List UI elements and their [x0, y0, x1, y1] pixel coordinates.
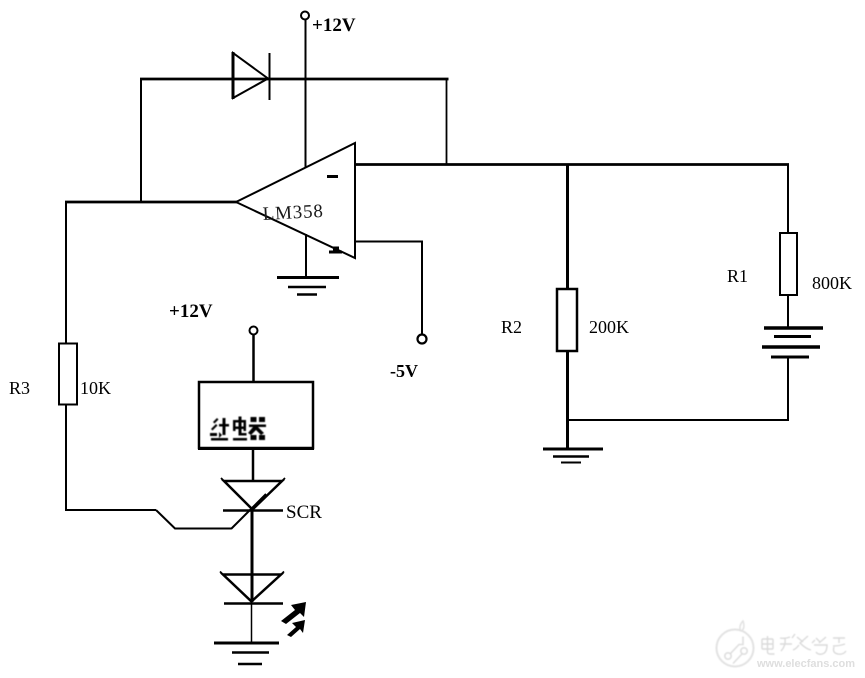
wire R2 branch vertical: [566, 164, 569, 290]
wire op-amp plus input: [355, 242, 422, 335]
svg-text:LM358: LM358: [262, 201, 324, 225]
svg-text:www.elecfans.com: www.elecfans.com: [756, 658, 855, 670]
watermark text 电子发烧友: [762, 634, 846, 654]
svg-text:10K: 10K: [80, 378, 111, 398]
op-amp U1 LM358: [236, 143, 355, 258]
wire op-amp ground pin: [305, 234, 307, 277]
diode D1: [233, 52, 270, 100]
继: [213, 418, 219, 424]
svg-text:200K: 200K: [589, 317, 629, 337]
svg-text:R3: R3: [9, 378, 30, 398]
wire battery to bottom rail: [787, 357, 789, 421]
wire +12V vertical to op-amp top edge: [305, 20, 307, 168]
wire top horizontal feedback: [140, 78, 449, 81]
wire R3 bottom to SCR gate: [66, 404, 156, 510]
wire bottom rail: [567, 419, 789, 421]
terminal +12V top: [301, 12, 309, 20]
watermark logo elecfans: [717, 621, 754, 667]
svg-text:+12V: +12V: [312, 15, 356, 36]
ground R2: [543, 449, 603, 463]
ground LED: [214, 643, 279, 664]
resistor R3: [59, 344, 77, 405]
LED D2: [220, 572, 284, 604]
wire terminal to relay: [252, 335, 255, 384]
wire R1 to battery: [787, 295, 789, 328]
battery B1: [762, 328, 823, 357]
label relay 继电器 (hand drawn): [210, 417, 266, 441]
wire right rail down to R1: [787, 164, 789, 235]
relay box: [198, 382, 314, 449]
svg-text:800K: 800K: [812, 273, 852, 293]
器: [251, 417, 257, 422]
LED arrows: [281, 602, 306, 637]
resistor R2: [557, 289, 577, 351]
电: [233, 420, 246, 423]
wire apex output to left: [65, 201, 237, 204]
wire gate diagonal to SCR: [231, 494, 266, 529]
svg-text:-5V: -5V: [390, 361, 418, 381]
wire gate jog: [156, 510, 231, 529]
resistor R1: [780, 233, 797, 295]
wire relay to SCR: [252, 448, 255, 482]
svg-text:SCR: SCR: [286, 502, 322, 523]
ground op-amp: [277, 278, 339, 295]
wire R2 bottom to ground node: [566, 351, 569, 449]
terminal -5V: [418, 335, 427, 344]
wire op-amp minus input to right rail: [355, 163, 789, 166]
wire LED to ground: [251, 603, 253, 643]
wire left down to R3: [65, 202, 67, 344]
svg-text:R2: R2: [501, 317, 522, 337]
terminal +12V relay: [250, 327, 258, 335]
svg-text:+12V: +12V: [169, 301, 213, 322]
wire right feedback vertical x=447: [446, 78, 448, 166]
svg-text:R1: R1: [727, 266, 748, 286]
SCR thyristor: [221, 478, 285, 511]
wire SCR to LED (thick): [251, 510, 254, 602]
wire left vertical x=141: [140, 78, 142, 203]
